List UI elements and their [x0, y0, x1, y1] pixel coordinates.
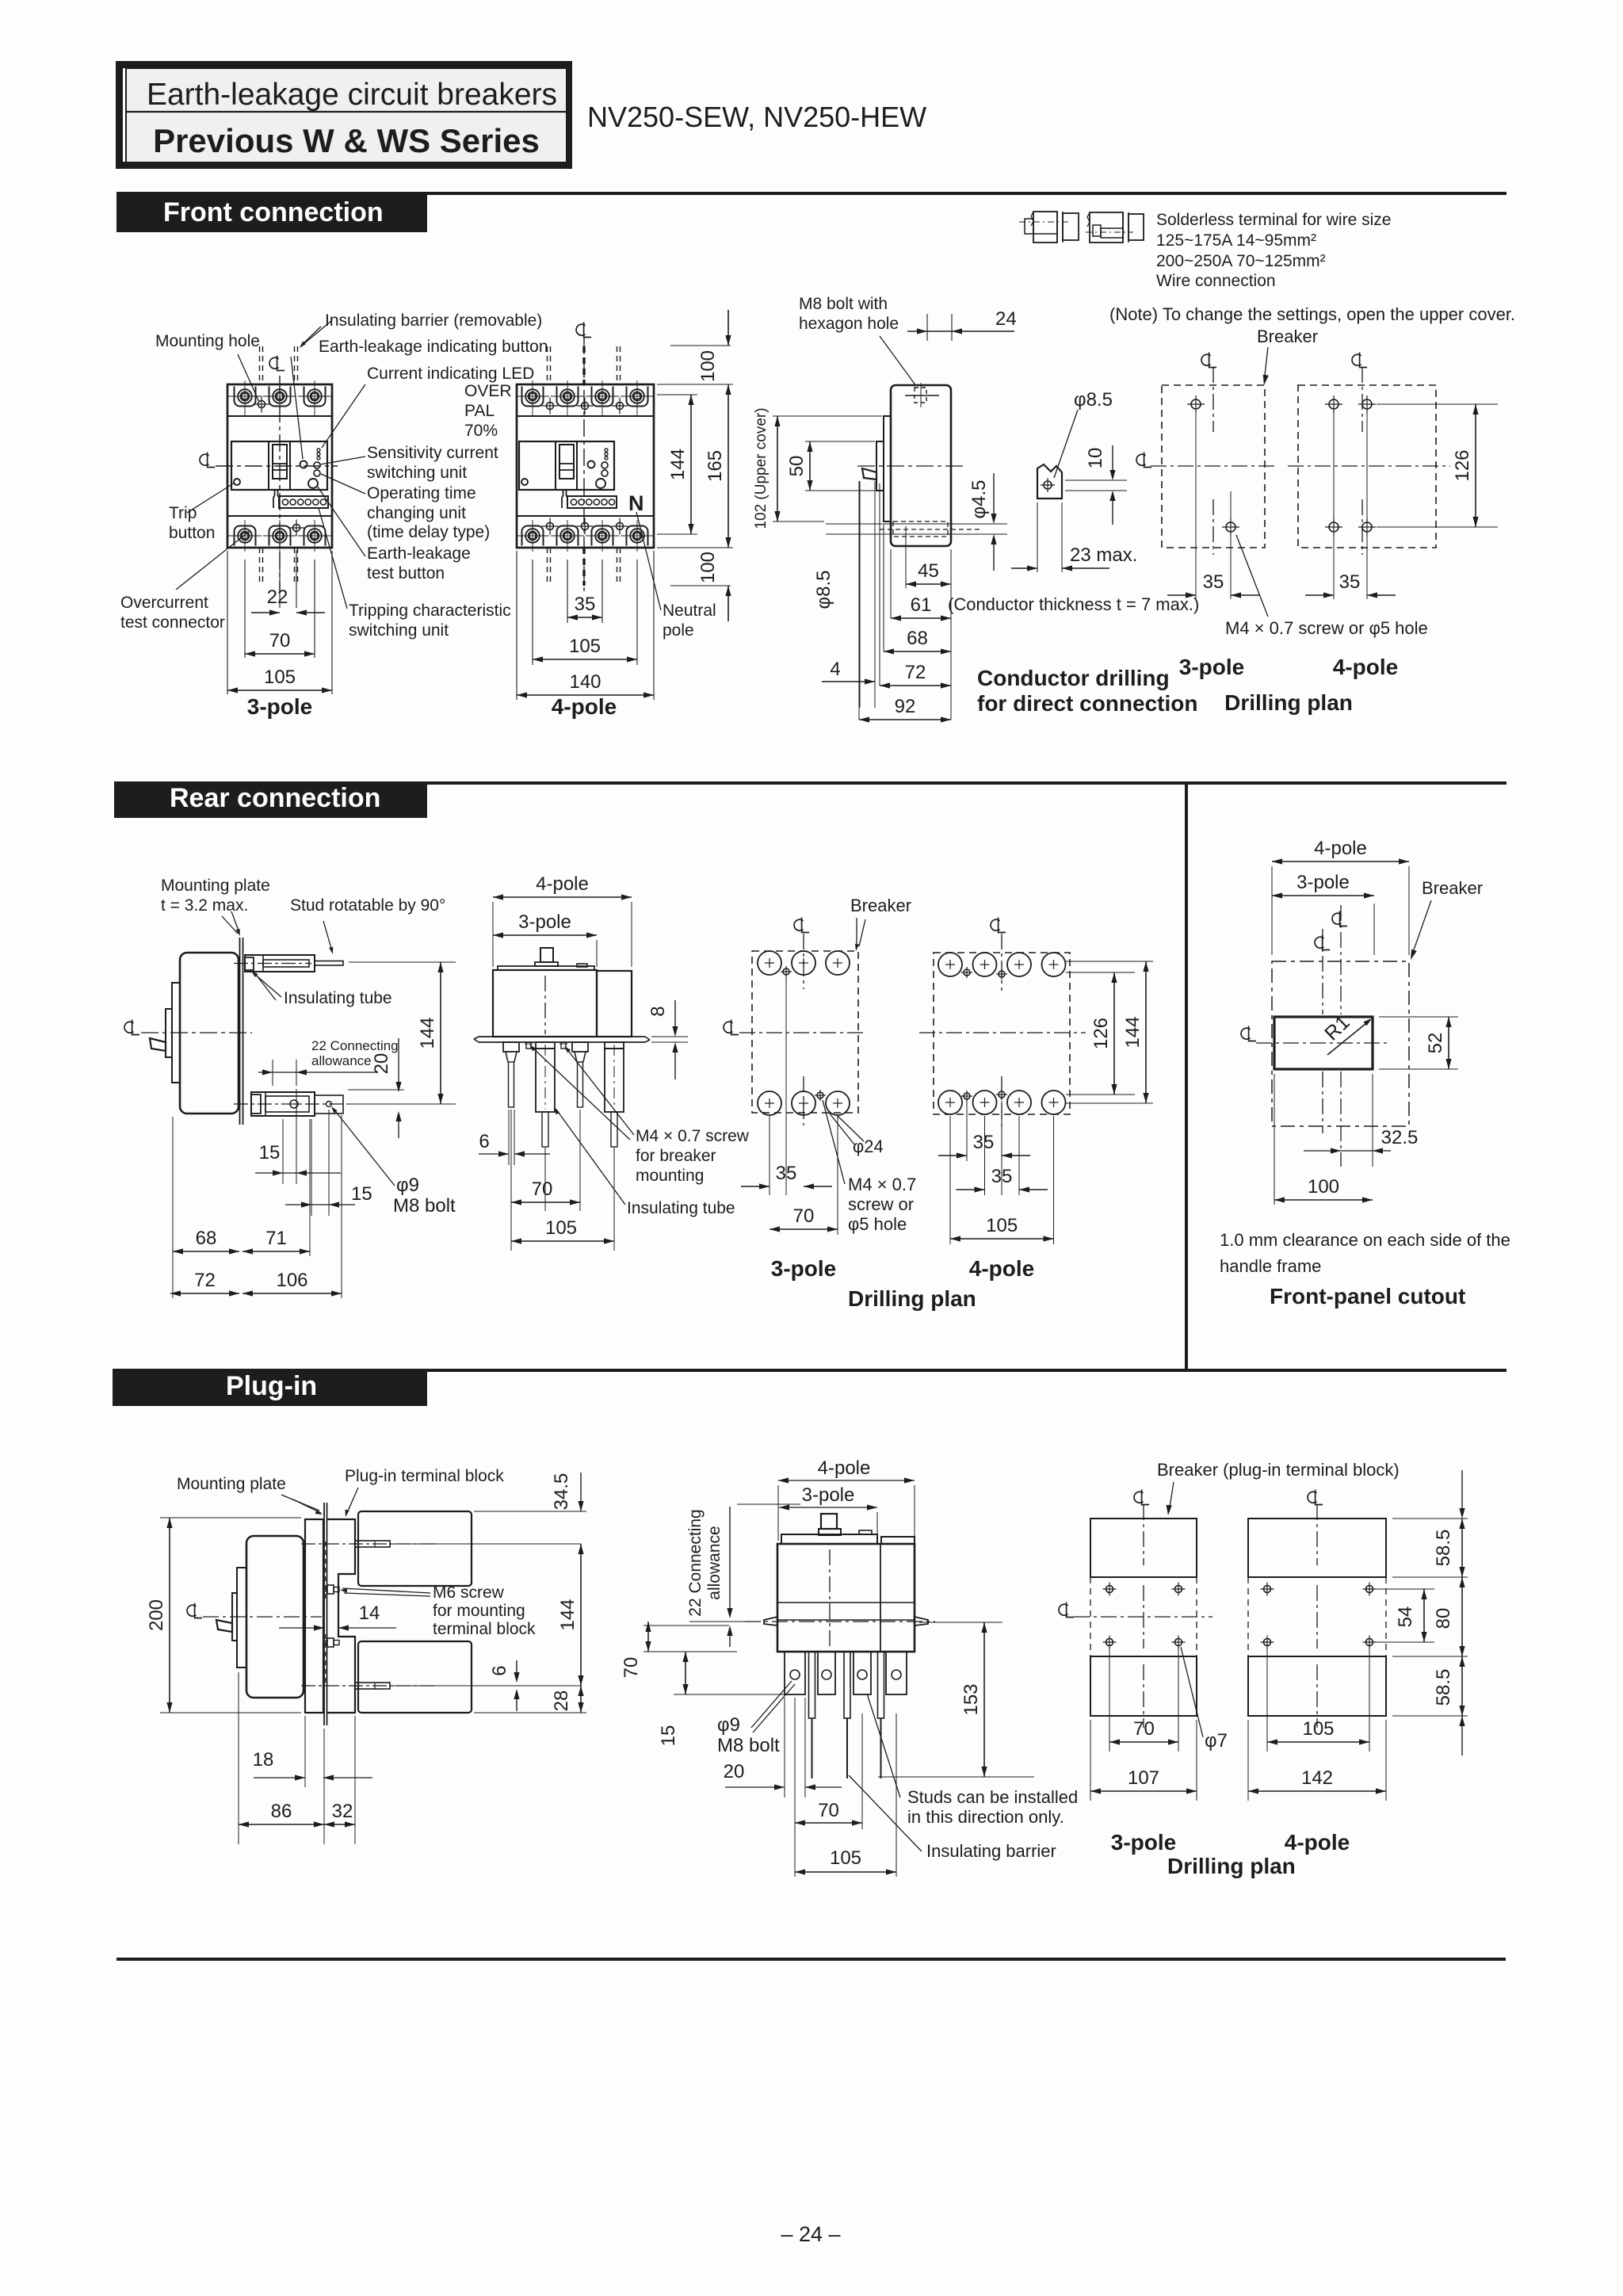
svg-text:144: 144	[1122, 1016, 1144, 1048]
svg-text:35: 35	[575, 594, 596, 615]
svg-text:3-pole: 3-pole	[1179, 655, 1244, 679]
svg-text:screw or: screw or	[848, 1194, 914, 1214]
svg-text:Trip: Trip	[169, 504, 197, 522]
svg-text:58.5: 58.5	[1433, 1669, 1454, 1706]
svg-text:14: 14	[359, 1603, 380, 1624]
svg-text:(Conductor thickness t = 7 max: (Conductor thickness t = 7 max.)	[948, 594, 1199, 614]
svg-text:M8 bolt: M8 bolt	[717, 1735, 780, 1756]
svg-text:Drilling plan: Drilling plan	[1167, 1854, 1296, 1878]
svg-text:PAL: PAL	[464, 402, 495, 420]
svg-text:Breaker (plug-in terminal bloc: Breaker (plug-in terminal block)	[1157, 1460, 1400, 1480]
svg-text:86: 86	[271, 1801, 292, 1822]
svg-text:45: 45	[918, 560, 939, 582]
svg-text:34.5: 34.5	[551, 1473, 572, 1511]
svg-text:1.0 mm clearance on each side: 1.0 mm clearance on each side of the	[1220, 1230, 1510, 1250]
svg-text:Breaker: Breaker	[1422, 878, 1483, 898]
svg-text:(Note) To change the settings,: (Note) To change the settings, open the …	[1109, 304, 1515, 324]
svg-text:144: 144	[417, 1017, 438, 1049]
svg-text:24: 24	[995, 308, 1017, 330]
svg-text:28: 28	[551, 1690, 572, 1712]
svg-text:φ9: φ9	[396, 1175, 419, 1196]
svg-text:200: 200	[146, 1599, 167, 1631]
svg-text:4-pole: 4-pole	[1285, 1830, 1350, 1855]
svg-text:80: 80	[1433, 1608, 1454, 1629]
svg-text:125~175A 14~95mm²: 125~175A 14~95mm²	[1156, 231, 1316, 250]
svg-text:35: 35	[991, 1166, 1013, 1187]
svg-text:50: 50	[786, 456, 808, 477]
svg-text:100: 100	[1308, 1176, 1339, 1198]
svg-text:35: 35	[1339, 571, 1361, 593]
svg-text:61: 61	[911, 594, 932, 616]
svg-text:92: 92	[895, 696, 916, 717]
svg-text:32: 32	[332, 1801, 353, 1822]
svg-text:4-pole: 4-pole	[969, 1256, 1034, 1281]
svg-text:φ7: φ7	[1205, 1730, 1228, 1752]
svg-text:35: 35	[973, 1132, 995, 1153]
svg-text:Previous W & WS Series: Previous W & WS Series	[153, 122, 540, 159]
svg-text:φ8.5: φ8.5	[813, 571, 834, 609]
svg-text:Conductor drilling: Conductor drilling	[977, 666, 1170, 690]
svg-text:Overcurrent: Overcurrent	[120, 594, 208, 612]
svg-text:35: 35	[776, 1163, 797, 1184]
svg-text:M6 screw: M6 screw	[433, 1584, 505, 1602]
svg-text:M4 × 0.7 screw or φ5 hole: M4 × 0.7 screw or φ5 hole	[1225, 618, 1428, 638]
svg-text:70: 70	[793, 1205, 815, 1227]
svg-text:8: 8	[647, 1006, 669, 1016]
svg-text:106: 106	[276, 1270, 307, 1291]
svg-text:NV250-SEW, NV250-HEW: NV250-SEW, NV250-HEW	[587, 101, 926, 133]
svg-text:22: 22	[267, 586, 288, 608]
svg-text:Earth-leakage: Earth-leakage	[367, 544, 471, 563]
svg-text:hexagon hole: hexagon hole	[799, 315, 899, 333]
svg-text:Tripping characteristic: Tripping characteristic	[349, 602, 511, 620]
svg-text:– 24 –: – 24 –	[781, 2222, 840, 2246]
svg-text:M4 × 0.7 screw: M4 × 0.7 screw	[636, 1127, 750, 1145]
svg-text:105: 105	[545, 1217, 577, 1239]
svg-text:Drilling plan: Drilling plan	[1224, 690, 1353, 715]
svg-text:for mounting: for mounting	[433, 1602, 525, 1620]
svg-text:M4 × 0.7: M4 × 0.7	[848, 1175, 916, 1194]
svg-text:70: 70	[621, 1657, 642, 1679]
svg-text:22 Connecting: 22 Connecting	[686, 1509, 705, 1616]
svg-text:OVER: OVER	[464, 382, 512, 400]
svg-text:in this direction only.: in this direction only.	[907, 1807, 1064, 1827]
svg-text:Solderless terminal for wire s: Solderless terminal for wire size	[1156, 211, 1391, 229]
svg-text:Stud rotatable by 90°: Stud rotatable by 90°	[290, 896, 445, 915]
svg-text:Earth-leakage indicating butto: Earth-leakage indicating button	[319, 338, 548, 356]
svg-text:144: 144	[557, 1599, 579, 1630]
svg-text:N: N	[628, 491, 644, 515]
svg-text:70%: 70%	[464, 422, 498, 440]
svg-text:4-pole: 4-pole	[536, 873, 589, 895]
svg-text:Insulating barrier: Insulating barrier	[926, 1841, 1056, 1861]
svg-text:3-pole: 3-pole	[1296, 872, 1350, 893]
svg-text:15: 15	[259, 1142, 281, 1163]
svg-text:102 (Upper cover): 102 (Upper cover)	[753, 407, 769, 529]
svg-text:M8 bolt: M8 bolt	[393, 1195, 456, 1217]
svg-text:15: 15	[658, 1725, 679, 1747]
svg-text:Insulating tube: Insulating tube	[627, 1199, 735, 1217]
svg-text:72: 72	[194, 1270, 216, 1291]
svg-text:Neutral: Neutral	[663, 602, 716, 620]
svg-text:68: 68	[196, 1228, 217, 1249]
svg-text:Sensitivity current: Sensitivity current	[367, 444, 498, 462]
svg-text:mounting: mounting	[636, 1167, 704, 1185]
svg-text:153: 153	[960, 1683, 982, 1715]
svg-text:Breaker: Breaker	[850, 896, 911, 915]
svg-text:Plug-in terminal block: Plug-in terminal block	[345, 1467, 504, 1485]
svg-text:35: 35	[1203, 571, 1224, 593]
svg-text:3-pole: 3-pole	[518, 911, 571, 933]
svg-text:switching unit: switching unit	[349, 621, 449, 640]
svg-text:for breaker: for breaker	[636, 1147, 716, 1165]
svg-text:terminal block: terminal block	[433, 1620, 536, 1638]
svg-text:φ8.5: φ8.5	[1074, 389, 1113, 411]
svg-text:20: 20	[724, 1761, 745, 1782]
svg-text:for direct connection: for direct connection	[977, 691, 1197, 716]
svg-text:144: 144	[667, 449, 689, 480]
svg-text:Current indicating LED: Current indicating LED	[367, 365, 534, 383]
svg-text:Mounting plate: Mounting plate	[161, 877, 270, 895]
svg-text:70: 70	[269, 630, 291, 651]
svg-text:4: 4	[830, 659, 840, 680]
svg-text:18: 18	[253, 1749, 274, 1771]
svg-text:68: 68	[907, 628, 928, 649]
svg-text:105: 105	[986, 1215, 1018, 1236]
svg-text:6: 6	[479, 1131, 489, 1152]
svg-text:test connector: test connector	[120, 613, 225, 632]
svg-text:button: button	[169, 524, 215, 542]
svg-text:105: 105	[264, 667, 296, 688]
svg-text:52: 52	[1425, 1033, 1446, 1054]
svg-text:200~250A 70~125mm²: 200~250A 70~125mm²	[1156, 252, 1326, 270]
svg-text:Plug-in: Plug-in	[226, 1371, 317, 1401]
svg-text:φ5 hole: φ5 hole	[848, 1214, 907, 1234]
svg-text:100: 100	[697, 552, 719, 583]
svg-text:32.5: 32.5	[1381, 1127, 1419, 1148]
svg-text:φ4.5: φ4.5	[968, 480, 990, 519]
svg-text:4-pole: 4-pole	[1333, 655, 1398, 679]
svg-text:3-pole: 3-pole	[247, 694, 312, 719]
svg-text:20: 20	[371, 1053, 392, 1075]
svg-text:105: 105	[830, 1847, 861, 1869]
svg-text:72: 72	[905, 662, 926, 683]
svg-text:70: 70	[818, 1800, 839, 1821]
svg-text:107: 107	[1128, 1767, 1159, 1789]
svg-text:71: 71	[265, 1228, 287, 1249]
svg-text:105: 105	[1302, 1718, 1334, 1740]
svg-text:3-pole: 3-pole	[802, 1484, 855, 1506]
svg-text:70: 70	[1133, 1718, 1155, 1740]
svg-text:Earth-leakage circuit breakers: Earth-leakage circuit breakers	[147, 78, 557, 112]
svg-text:switching unit: switching unit	[367, 464, 467, 482]
svg-text:pole: pole	[663, 621, 694, 640]
svg-text:58.5: 58.5	[1433, 1530, 1454, 1567]
svg-text:105: 105	[569, 636, 601, 657]
svg-text:15: 15	[351, 1183, 372, 1205]
svg-text:4-pole: 4-pole	[1314, 838, 1367, 859]
svg-text:165: 165	[705, 450, 726, 482]
svg-text:4-pole: 4-pole	[818, 1457, 871, 1479]
svg-text:3-pole: 3-pole	[771, 1256, 836, 1281]
svg-text:test button: test button	[367, 564, 445, 583]
svg-text:Insulating tube: Insulating tube	[284, 989, 392, 1007]
svg-text:23 max.: 23 max.	[1070, 544, 1137, 566]
svg-text:allowance: allowance	[311, 1053, 372, 1068]
svg-text:Drilling plan: Drilling plan	[848, 1286, 976, 1311]
svg-text:142: 142	[1301, 1767, 1333, 1789]
svg-text:70: 70	[532, 1179, 553, 1200]
svg-text:126: 126	[1090, 1018, 1112, 1049]
svg-text:126: 126	[1452, 449, 1473, 481]
svg-text:Breaker: Breaker	[1257, 327, 1318, 346]
svg-text:Rear connection: Rear connection	[170, 783, 380, 813]
svg-text:changing unit: changing unit	[367, 504, 466, 522]
svg-text:Studs can be installed: Studs can be installed	[907, 1787, 1078, 1807]
svg-text:φ24: φ24	[853, 1137, 884, 1156]
svg-text:54: 54	[1395, 1606, 1416, 1628]
svg-text:M8 bolt with: M8 bolt with	[799, 295, 888, 313]
svg-text:4-pole: 4-pole	[552, 694, 617, 719]
svg-text:Wire connection: Wire connection	[1156, 272, 1276, 290]
svg-text:6: 6	[489, 1665, 510, 1675]
svg-text:22 Connecting: 22 Connecting	[311, 1038, 399, 1053]
svg-text:Operating time: Operating time	[367, 484, 476, 502]
svg-text:Insulating barrier (removable): Insulating barrier (removable)	[325, 311, 542, 330]
svg-text:Mounting plate: Mounting plate	[177, 1475, 286, 1493]
svg-text:φ9: φ9	[717, 1714, 740, 1736]
svg-text:100: 100	[697, 350, 719, 382]
svg-text:140: 140	[569, 671, 601, 693]
svg-text:(time delay type): (time delay type)	[367, 523, 490, 541]
svg-text:3-pole: 3-pole	[1111, 1830, 1176, 1855]
svg-text:Front-panel cutout: Front-panel cutout	[1270, 1284, 1465, 1308]
svg-text:handle frame: handle frame	[1220, 1256, 1321, 1276]
svg-text:t = 3.2 max.: t = 3.2 max.	[161, 896, 248, 915]
svg-text:Mounting hole: Mounting hole	[155, 332, 260, 350]
svg-text:10: 10	[1085, 448, 1106, 469]
svg-text:allowance: allowance	[705, 1526, 724, 1599]
svg-text:Front connection: Front connection	[163, 197, 384, 227]
